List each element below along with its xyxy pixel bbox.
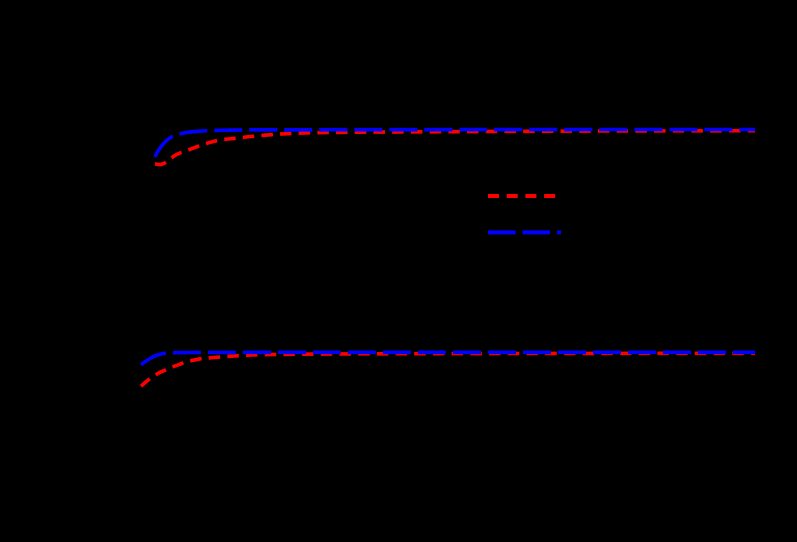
legend: red dashed sample	[488, 194, 561, 198]
bottom subplot: red short-dashed curve	[141, 353, 755, 386]
top subplot: blue long-dashed curve	[155, 130, 755, 158]
top subplot: red short-dashed curve	[155, 131, 755, 165]
legend: blue dashed sample	[488, 230, 561, 234]
bottom subplot: blue long-dashed curve	[141, 352, 755, 365]
